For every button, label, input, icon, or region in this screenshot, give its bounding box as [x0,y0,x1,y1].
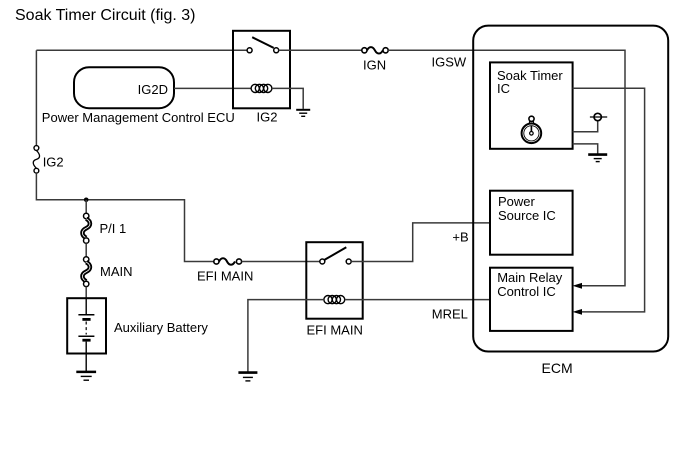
fusible link P/I 1 [82,213,90,243]
svg-text:Auxiliary Battery: Auxiliary Battery [114,320,208,335]
box Main Relay Control IC [490,268,573,331]
wire Soak Timer IC to terminal [573,121,598,132]
wire Soak Timer IC output to Main Relay Control IC arrow [573,88,645,312]
junction node [84,198,89,203]
relay EFI MAIN [306,242,362,319]
wire IG2 relay switch to IGN fuse [279,49,362,51]
svg-text:+B: +B [452,229,468,244]
wire relay switch to +B [351,223,489,262]
svg-text:EFI MAIN: EFI MAIN [197,269,253,284]
wire IG2 coil to ground [272,88,303,109]
stopwatch icon [522,116,542,143]
wire MAIN fuse to battery [85,287,87,299]
svg-text:MAIN: MAIN [100,264,133,279]
wire relay coil to ground [248,300,324,372]
wire from top-left corner to IG2 relay switch [36,49,247,51]
svg-text:IG2D: IG2D [138,82,168,97]
wire junction down to P/I 1 fuse [85,200,87,214]
fuse IG2 [33,146,39,174]
wire from IG2 fuse down, right to junction row, down to EFI MAIN fuse [36,173,213,261]
wire EFI MAIN fuse to relay contact [242,261,320,263]
svg-text:Control IC: Control IC [497,284,556,299]
svg-text:Source IC: Source IC [498,208,556,223]
svg-text:EFI MAIN: EFI MAIN [307,323,363,338]
svg-text:IG2: IG2 [257,110,278,125]
svg-text:IGSW: IGSW [432,55,467,70]
wire Soak Timer IC to ground [573,144,598,154]
wire IGN fuse into ECM, down to Main Relay Control IC arrow [388,50,625,285]
ground (IG2 relay coil) [296,110,310,117]
svg-text:Power Management Control ECU: Power Management Control ECU [42,110,235,125]
svg-text:Soak Timer Circuit (fig. 3): Soak Timer Circuit (fig. 3) [15,7,195,24]
arrow into Main Relay Control IC (from Soak Timer IC) [573,309,583,315]
fuse IGN [362,47,388,53]
ground (EFI MAIN relay coil) [238,373,257,381]
svg-text:IGN: IGN [363,58,386,73]
box Power Source IC [490,191,573,255]
ground (battery) [76,372,96,380]
box Power Management Control ECU [74,67,174,108]
terminal symbol [590,113,607,120]
box ECM [473,26,668,352]
svg-text:Power: Power [498,194,536,209]
relay IG2 [233,31,290,109]
wire IG2D to relay coil [174,87,251,89]
svg-text:IG2: IG2 [43,154,64,169]
battery (Auxiliary Battery) [67,298,106,372]
box Soak Timer IC [490,62,573,148]
svg-text:IC: IC [497,81,510,96]
fusible link MAIN [82,257,90,287]
wire between P/I 1 and MAIN [85,243,87,256]
fuse EFI MAIN [214,258,242,264]
ground (Soak Timer IC) [588,155,607,162]
svg-text:ECM: ECM [542,360,573,376]
arrow into Main Relay Control IC (from IGSW line) [573,283,583,289]
wire left vertical down to IG2 fuse [35,50,37,145]
svg-text:P/I 1: P/I 1 [100,221,127,236]
wire relay coil to MREL [345,299,490,301]
svg-text:Main Relay: Main Relay [497,270,563,285]
svg-text:MREL: MREL [432,307,468,322]
